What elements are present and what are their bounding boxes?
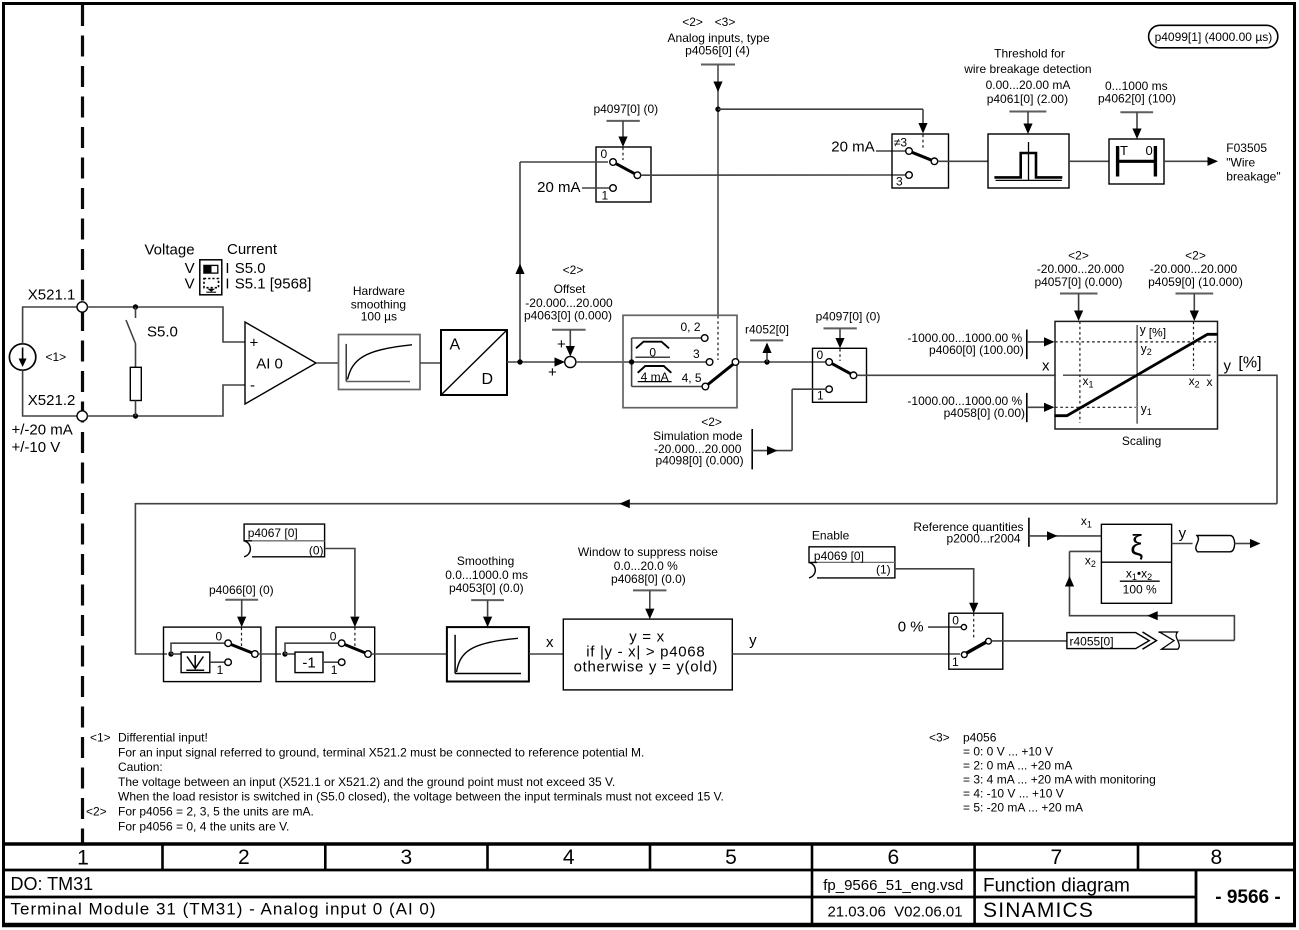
svg-text:3: 3 (693, 347, 700, 361)
svg-text:S5.1 [9568]: S5.1 [9568] (235, 275, 312, 292)
svg-text:Enable: Enable (812, 529, 850, 543)
window suppression block (563, 619, 732, 690)
title block table (2, 844, 1296, 925)
label y [%] output of scaling (1224, 355, 1262, 375)
label F03505 Wire breakage (1226, 141, 1280, 184)
svg-text:p4060[0] (100.00): p4060[0] (100.00) (929, 343, 1024, 357)
svg-text:0: 0 (817, 348, 824, 362)
svg-text:100 µs: 100 µs (361, 310, 397, 324)
svg-text:wire breakage detection: wire breakage detection (963, 62, 1091, 76)
absolute value block (rectifier symbol) (181, 652, 225, 673)
wire summing to selector (576, 361, 632, 363)
switch p4097a contacts and blade (610, 159, 641, 192)
svg-text:<2>: <2> (682, 15, 703, 29)
wire p4097b output to scaling block (857, 374, 1056, 376)
p4066 blade and contacts (225, 640, 258, 666)
svg-text:p4067 [0]: p4067 [0] (248, 526, 298, 540)
svg-text:(0): (0) (309, 544, 324, 558)
value label p4058 y1 input (907, 393, 1054, 422)
svg-text:p4053[0] (0.0): p4053[0] (0.0) (449, 581, 524, 595)
svg-text:Hardware: Hardware (353, 284, 405, 298)
wire op-amp output to hardware smoothing (316, 362, 339, 364)
wire simulation mode to p4097b contact 1 (752, 389, 826, 455)
wire selector output to p4097b (739, 361, 826, 363)
svg-text:x: x (1042, 358, 1050, 375)
svg-text:<2>: <2> (701, 415, 722, 429)
resistor (load resistor) (130, 367, 141, 416)
svg-text:<2>: <2> (563, 263, 584, 277)
value label p4098 Simulation mode (653, 429, 752, 469)
svg-text:T: T (1120, 143, 1128, 158)
column number labels 1-8 (77, 846, 1222, 870)
parameter connector p4069 Enable (809, 529, 895, 578)
switch -1 (sign inverter) (276, 627, 375, 682)
svg-text:breakage": breakage" (1226, 170, 1280, 184)
svg-text:0 %: 0 % (898, 619, 924, 636)
switch p4097b (simulation select) (813, 348, 867, 403)
value label p4099[1] sampling time capsule (1149, 25, 1278, 48)
svg-text:p4061[0] (2.00): p4061[0] (2.00) (987, 92, 1068, 106)
svg-text:2: 2 (238, 846, 250, 869)
value label p4053 Smoothing (445, 554, 528, 627)
node r4052 branch (764, 359, 769, 364)
svg-text:+: + (548, 364, 557, 381)
-1 switch blade and contacts (338, 640, 371, 666)
svg-text:1: 1 (331, 663, 338, 677)
wire p4056 control line down to selector (701, 65, 735, 316)
svg-text:p4062[0] (100): p4062[0] (100) (1098, 92, 1176, 106)
switch enable (0 %) (949, 613, 1003, 669)
svg-text:0: 0 (216, 630, 223, 644)
svg-text:[%]: [%] (1149, 326, 1166, 340)
wire to A/D converter (420, 362, 441, 364)
inverter block -1 (295, 652, 338, 673)
node junction top (S5.0 branch) (133, 304, 138, 309)
svg-text:- 9566 -: - 9566 - (1215, 887, 1280, 908)
value label p4097[0] (0) first switch (593, 102, 658, 147)
svg-text:1: 1 (77, 847, 89, 870)
svg-text:0: 0 (1146, 143, 1153, 158)
wire X521.2 to op-amp - input (87, 385, 245, 416)
selector block (input type characteristic 0,2 / 3 / 4,5) (623, 315, 737, 407)
value label p4097[0] (0) second switch (816, 310, 881, 349)
svg-text:I: I (225, 275, 229, 292)
svg-text:y: y (749, 632, 757, 649)
value label +/-20 mA +/-10 V (12, 422, 73, 457)
value label p4068 Window to suppress noise (578, 545, 718, 619)
svg-text:p4066[0] (0): p4066[0] (0) (209, 583, 274, 597)
svg-text:p4058[0] (0.00): p4058[0] (0.00) (944, 406, 1025, 420)
svg-text:4, 5: 4, 5 (682, 371, 702, 385)
svg-text:+/-10 V: +/-10 V (12, 439, 61, 456)
svg-text:5: 5 (725, 846, 737, 869)
svg-text:+: + (557, 336, 566, 353)
wire X521.1 to op-amp + input (87, 307, 245, 342)
svg-text:AI 0: AI 0 (256, 356, 283, 373)
svg-text:20 mA: 20 mA (831, 139, 874, 156)
svg-text:A: A (450, 337, 461, 354)
svg-text:= 4: -10 V ... +10 V: = 4: -10 V ... +10 V (963, 787, 1064, 801)
wire from A/D node up into p4097a contact 0 (515, 162, 608, 362)
svg-text:+: + (250, 335, 259, 352)
svg-text:p4059[0] (10.000): p4059[0] (10.000) (1148, 275, 1243, 289)
svg-text:Offset: Offset (554, 282, 586, 296)
arrow into summing junction (555, 357, 566, 366)
parameter connector p4067 (244, 524, 325, 557)
svg-text:"Wire: "Wire (1226, 155, 1255, 169)
input Reference quantities p2000...r2004 (913, 518, 1101, 547)
wire x2 into multiplier (1070, 550, 1102, 552)
svg-text:1: 1 (602, 189, 609, 203)
svg-text:ξ: ξ (1130, 530, 1143, 562)
svg-text:X521.2: X521.2 (28, 392, 76, 409)
svg-text:Smoothing: Smoothing (457, 554, 514, 568)
svg-text:p4099[1] (4000.00 µs): p4099[1] (4000.00 µs) (1155, 30, 1273, 44)
svg-text:1: 1 (817, 389, 824, 403)
svg-text:1: 1 (952, 655, 959, 669)
svg-text:D: D (482, 371, 494, 388)
svg-text:3: 3 (401, 846, 413, 869)
switch p4066 with absolute-value block (164, 627, 261, 682)
wire p4097a output to wire-breakage switch contact 3 (641, 174, 906, 176)
value label p4062 delay (1098, 79, 1176, 139)
svg-text:<2>: <2> (86, 805, 107, 819)
svg-text:Differential input!: Differential input! (118, 731, 208, 745)
svg-text:DO: TM31: DO: TM31 (11, 874, 94, 894)
svg-text:p4097[0] (0): p4097[0] (0) (816, 310, 881, 324)
terminal X521.2 (28, 392, 88, 421)
svg-text:0: 0 (330, 630, 337, 644)
summing junction circle (548, 336, 576, 381)
switch U-p4097a (current limit bypass) (596, 147, 651, 203)
svg-text:SINAMICS: SINAMICS (983, 899, 1094, 922)
svg-text:1: 1 (217, 663, 224, 677)
note <2> units (86, 805, 314, 834)
svg-text:For p4056 = 2, 3, 5 the units: For p4056 = 2, 3, 5 the units are mA. (118, 805, 314, 819)
output connector r4055[0] with chevron and break (1067, 632, 1179, 649)
svg-text:-1: -1 (302, 655, 315, 672)
wire p4067 to inverter switch control (325, 549, 360, 628)
svg-text:8: 8 (1210, 846, 1222, 869)
delay timer block T 0 (1109, 139, 1164, 184)
wire smoothing to window block, label x (529, 634, 563, 654)
switch S5.0 (126, 307, 178, 367)
node junction bottom (133, 413, 138, 418)
svg-text:4: 4 (563, 846, 575, 869)
A/D converter block (441, 330, 507, 395)
svg-text:<3>: <3> (929, 731, 950, 745)
svg-text:F03505: F03505 (1226, 141, 1267, 155)
svg-text:p4068[0] (0.0): p4068[0] (0.0) (611, 572, 686, 586)
svg-text:Simulation mode: Simulation mode (653, 429, 743, 443)
monitor output r4052[0] (745, 323, 789, 363)
svg-text:= 2: 0 mA ... +20 mA: = 2: 0 mA ... +20 mA (963, 759, 1072, 773)
node A/D output junction (517, 359, 522, 364)
svg-text:= 3: 4 mA ... +20 mA with moni: = 3: 4 mA ... +20 mA with monitoring (963, 773, 1156, 787)
wire delay output to fault signal (1164, 157, 1218, 166)
svg-text:y: y (1140, 323, 1146, 337)
wire long feedback run to lower chain (135, 499, 1277, 654)
svg-text:7: 7 (1050, 846, 1062, 869)
hardware smoothing block (339, 335, 421, 390)
svg-text:<1>: <1> (46, 350, 67, 364)
svg-text:p4097[0] (0): p4097[0] (0) (593, 102, 658, 116)
svg-text:0.0...20.0 %: 0.0...20.0 % (614, 559, 678, 573)
scaling block (1054, 321, 1218, 429)
dashed terminal boundary line (81, 5, 84, 843)
svg-text:<1>: <1> (90, 731, 111, 745)
wire to inverter switch (258, 653, 281, 655)
wire A/D output to summing point (507, 361, 555, 363)
svg-text:r4052[0]: r4052[0] (745, 323, 789, 337)
svg-text:0.0...1000.0 ms: 0.0...1000.0 ms (445, 568, 528, 582)
svg-text:otherwise y = y(old): otherwise y = y(old) (574, 659, 718, 676)
svg-text:[%]: [%] (1238, 355, 1261, 372)
svg-text:-: - (250, 377, 255, 394)
comparator block (threshold, pulse symbol) (988, 134, 1069, 188)
current source <1> (9, 344, 35, 370)
svg-text:0: 0 (952, 613, 959, 627)
value label p4056[0] (4) Analog inputs, type (668, 15, 770, 58)
svg-text:0: 0 (601, 147, 608, 161)
svg-text:r4055[0]: r4055[0] (1070, 635, 1114, 649)
wire 20 mA to contact 1 (582, 187, 609, 189)
svg-text:0.00...20.00 mA: 0.00...20.00 mA (986, 78, 1071, 92)
svg-text:Window to suppress noise: Window to suppress noise (578, 545, 718, 559)
svg-text:x: x (546, 634, 554, 651)
value label p4059 (1148, 249, 1243, 322)
svg-text:≠3: ≠3 (894, 136, 908, 150)
svg-text:(1): (1) (876, 563, 891, 577)
svg-text:= 0: 0 V ... +10 V: = 0: 0 V ... +10 V (963, 745, 1053, 759)
multiplier block xi (x1*x2/100%) (1101, 524, 1171, 603)
wire p4069 to enable switch control (895, 569, 978, 613)
svg-text:V: V (185, 275, 195, 292)
svg-text:For p4056 = 0, 4 the units are: For p4056 = 0, 4 the units are V. (118, 819, 289, 833)
value label p4060 y2 input (907, 330, 1054, 360)
svg-text:-20.000...20.000: -20.000...20.000 (1037, 262, 1125, 276)
wire r4055 break to feedback x2 (1065, 551, 1235, 640)
svg-text:Terminal Module 31 (TM31) - An: Terminal Module 31 (TM31) - Analog input… (11, 900, 437, 919)
svg-text:The voltage between an input (: The voltage between an input (X521.1 or … (118, 775, 615, 789)
svg-text:Caution:: Caution: (118, 760, 163, 774)
svg-text:Voltage: Voltage (145, 242, 195, 259)
value label p4061 threshold for wire breakage detection (963, 47, 1091, 135)
label Hardware smoothing 100 us (351, 284, 406, 324)
svg-text:X521.1: X521.1 (28, 287, 76, 304)
value label p4063 Offset (524, 263, 613, 357)
wire 0 % to switch contact 0 (928, 626, 961, 628)
switch wire-breakage detector select (&#8800;3) (892, 134, 949, 189)
svg-text:p4063[0] (0.000): p4063[0] (0.000) (524, 309, 612, 323)
wire p4056 branch to wire-breakage switch (718, 109, 928, 133)
svg-text:p4056[0] (4): p4056[0] (4) (685, 44, 750, 58)
value label p4066[0] (0) (209, 583, 274, 627)
svg-text:p4069 [0]: p4069 [0] (814, 549, 864, 563)
wire switch output to r4055 flag (991, 640, 1067, 642)
svg-text:<2>: <2> (1068, 249, 1089, 263)
note <3> p4056 value list (929, 731, 1156, 815)
selector blade and contacts (701, 335, 738, 390)
svg-text:<2>: <2> (1185, 249, 1206, 263)
svg-text:6: 6 (887, 846, 899, 869)
wire window output to enable switch, label y (732, 632, 960, 654)
svg-text:0, 2: 0, 2 (680, 320, 700, 334)
svg-text:p4098[0] (0.000): p4098[0] (0.000) (656, 454, 744, 468)
svg-text:When the load resistor is swit: When the load resistor is switched in (S… (118, 790, 724, 804)
svg-text:<3>: <3> (715, 15, 736, 29)
wire 20 mA to contact &#8800;3 (876, 150, 906, 152)
svg-text:S5.0: S5.0 (147, 324, 178, 341)
characteristic icon 4 mA (638, 366, 672, 384)
svg-text:3: 3 (896, 175, 903, 189)
svg-text:fp_9566_51_eng.vsd: fp_9566_51_eng.vsd (823, 877, 963, 894)
svg-text:= 5: -20 mA ... +20 mA: = 5: -20 mA ... +20 mA (963, 801, 1083, 815)
note <1> differential input (90, 731, 724, 804)
svg-text:y: y (1179, 525, 1187, 542)
svg-text:Threshold for: Threshold for (994, 47, 1065, 61)
svg-text:+/-20 mA: +/-20 mA (12, 422, 73, 439)
characteristic icon 0 (635, 342, 670, 360)
wire threshold to delay block (1069, 160, 1109, 162)
svg-text:p2000...r2004: p2000...r2004 (947, 532, 1021, 546)
op-amp AI 0 (245, 322, 316, 404)
wire scaling output down to feedback run (1218, 375, 1277, 503)
svg-text:Scaling: Scaling (1122, 434, 1161, 448)
smoothing block (exponential filter) (447, 627, 529, 681)
wire to smoothing block (371, 653, 447, 655)
svg-text:20 mA: 20 mA (537, 179, 580, 196)
terminal X521.1 (28, 287, 88, 313)
svg-text:y: y (1224, 357, 1232, 374)
svg-text:p4057[0] (0.000): p4057[0] (0.000) (1034, 275, 1122, 289)
svg-text:For an input signal referred t: For an input signal referred to ground, … (118, 745, 644, 759)
svg-text:21.03.06 V02.06.01: 21.03.06 V02.06.01 (827, 904, 962, 921)
value label p4057 (1034, 249, 1124, 322)
svg-text:-20.000...20.000: -20.000...20.000 (1150, 262, 1238, 276)
wire to threshold block (938, 160, 988, 162)
svg-text:Function diagram: Function diagram (983, 876, 1130, 897)
node: p4056 branch junction (715, 107, 720, 112)
wire y output of multiplier to break connector (1172, 525, 1261, 552)
svg-text:p4056: p4056 (963, 731, 997, 745)
svg-text:100 %: 100 % (1123, 583, 1157, 597)
svg-text:Current: Current (227, 241, 278, 258)
wire current source to terminals (23, 307, 77, 416)
legend Voltage / Current selector table (145, 241, 312, 295)
svg-text:x: x (1207, 375, 1213, 389)
